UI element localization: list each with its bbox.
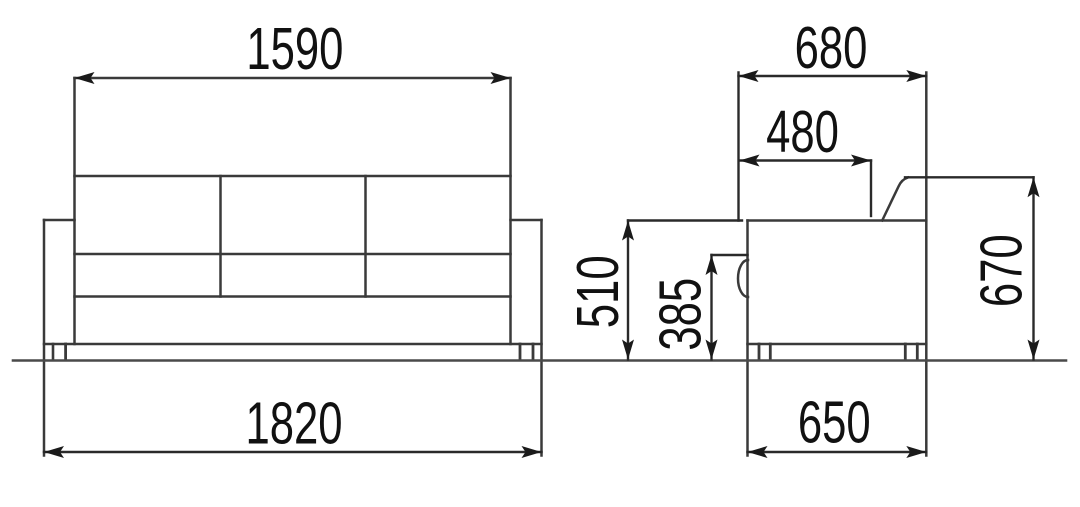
front view: right armrest outer edge / 1820 extension line: [540, 220, 543, 456]
side view: front leg outline: [758, 344, 761, 360]
svg-text:670: 670: [968, 234, 1034, 307]
arrowhead 480 right: [851, 155, 871, 167]
svg-text:385: 385: [647, 278, 713, 351]
arrowhead 670 bottom: [1028, 340, 1040, 360]
front view: backrest top edge / 1590 dimension line: [75, 77, 511, 80]
front view: left armrest outer edge / 1820 extension line: [43, 220, 46, 456]
arrowhead 1590 left: [75, 72, 95, 84]
480 right extension line: [870, 161, 872, 217]
1820 dimension line: [44, 451, 542, 453]
arrowhead 1820 right: [522, 446, 542, 458]
510 extension line: [628, 219, 742, 221]
front view: right body edge: [509, 78, 512, 344]
svg-text:650: 650: [798, 389, 871, 455]
side view: armrest front arc: [738, 260, 748, 297]
arrowhead 1820 left: [44, 446, 64, 458]
arrowhead 650 right: [906, 446, 926, 458]
svg-text:480: 480: [766, 99, 839, 165]
arrowhead 385 top: [706, 255, 718, 275]
650 dimension line: [748, 451, 927, 453]
front view: right leg outline: [519, 344, 522, 360]
front view: left armrest top edge: [44, 219, 75, 222]
385 extension bracket: [712, 254, 748, 256]
front view: left leg outline: [52, 344, 55, 360]
side view: front (left) body edge / 650 extension line: [746, 221, 749, 456]
670 dimension line: [1032, 177, 1034, 359]
arrowhead 680 left: [739, 70, 759, 82]
arrowhead 680 right: [906, 70, 926, 82]
side view: body bottom line: [748, 343, 927, 346]
385 dimension line: [710, 255, 712, 360]
510 dimension line: [627, 221, 629, 360]
side view: armrest top edge: [748, 219, 927, 222]
svg-text:1590: 1590: [246, 15, 343, 81]
front view: right armrest top edge: [511, 219, 542, 222]
arrowhead 650 left: [748, 446, 768, 458]
front view: cushion divider left: [219, 176, 222, 297]
front view: back cushion top line: [75, 175, 511, 178]
front view: cushion divider right: [364, 176, 367, 297]
arrowhead 670 top: [1028, 177, 1040, 197]
arrowhead 510 top: [622, 221, 634, 241]
svg-text:1820: 1820: [245, 390, 342, 456]
side view: rear leg outline: [904, 344, 907, 360]
svg-text:680: 680: [795, 14, 868, 80]
670 extension line / side back top edge: [905, 176, 1034, 178]
front view: seat cushion bottom line: [75, 295, 511, 298]
front view: body bottom line: [44, 343, 542, 346]
ground line: [13, 359, 1066, 362]
680 left extension line: [737, 73, 739, 221]
front view: cushion middle line: [75, 253, 511, 256]
arrowhead 480 left: [740, 155, 760, 167]
side view: rear (right) body edge / 680 and 650 extension line: [925, 73, 928, 456]
arrowhead 1590 right: [491, 72, 511, 84]
680 dimension line: [739, 75, 927, 77]
svg-text:510: 510: [564, 255, 630, 328]
side view: backrest top curve: [882, 177, 908, 220]
front view: left body edge: [73, 78, 76, 344]
arrowhead 385 bottom: [706, 340, 718, 360]
480 dimension line: [740, 159, 872, 161]
arrowhead 510 bottom: [622, 340, 634, 360]
